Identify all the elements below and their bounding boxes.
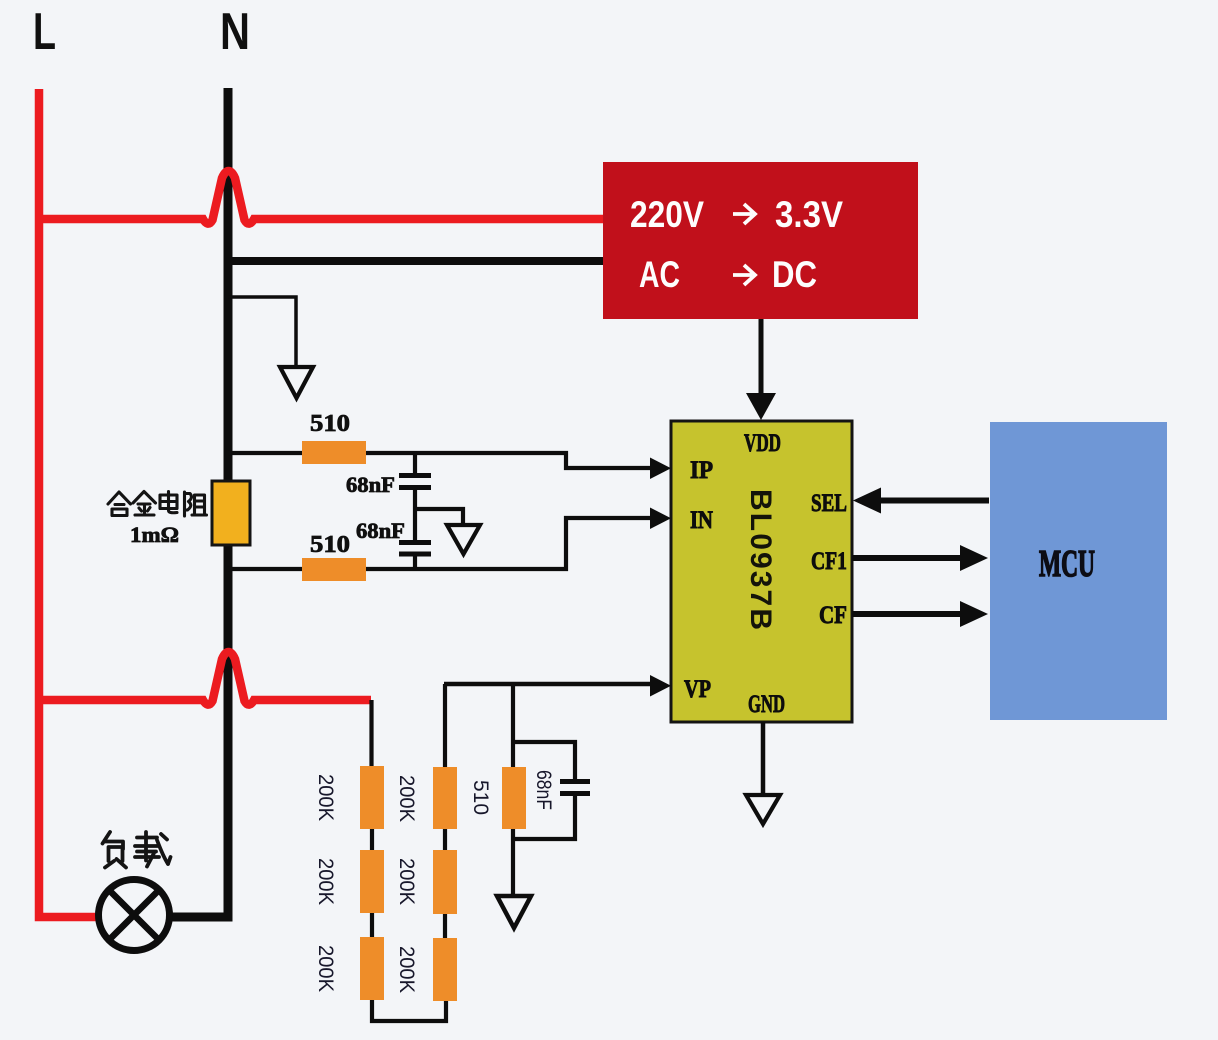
resistor alloy shunt (1mΩ) (212, 481, 250, 545)
svg-text:200K: 200K (395, 858, 418, 905)
wire IP tap (N to IC) (228, 453, 652, 468)
wire 510 VP branch bottom (511, 829, 515, 895)
arrow into pin IP (650, 458, 671, 480)
lamp X cross (109, 890, 159, 940)
svg-text:L: L (33, 3, 56, 61)
label 合金电阻 (hand-drawn glyphs) (108, 492, 207, 517)
arrow into pin VDD (746, 393, 776, 420)
wire cap junction to ground (415, 509, 463, 523)
resistor 200K (col2 top) (433, 767, 457, 829)
power supply AC/DC converter box (603, 162, 918, 319)
svg-text:200K: 200K (395, 775, 418, 822)
arrow AC to DC (733, 265, 755, 285)
resistor 200K (col1 bottom) (360, 937, 384, 1000)
svg-text:68nF: 68nF (532, 770, 555, 810)
ground (N stub) (280, 367, 313, 398)
resistor 200K (col2 bottom) (433, 938, 457, 1001)
svg-text:3.3V: 3.3V (775, 194, 843, 235)
resistor 510 (IN) (302, 558, 366, 581)
ground (GND pin) (746, 795, 780, 824)
svg-text:VDD: VDD (744, 430, 781, 457)
wire CF (IC to MCU) (852, 611, 961, 617)
arrow into pin SEL (853, 488, 881, 514)
svg-text:VP: VP (684, 676, 711, 703)
arrow 220V to 3.3V (733, 204, 755, 224)
wire divider column 1 top (369, 700, 373, 767)
resistor 200K (col1 top) (360, 766, 384, 829)
capacitor 68nF (IP filter) (399, 453, 431, 509)
resistor 200K (col2 mid) (433, 850, 457, 914)
wire VP net (divider to IC) (444, 682, 652, 687)
resistor 510 (VP) (502, 767, 526, 829)
wire N line (black bus, down to load) (171, 88, 228, 917)
svg-text:220V: 220V (630, 194, 704, 235)
wire divider bottom U (372, 1000, 446, 1021)
MCU box (990, 422, 1167, 720)
svg-text:DC: DC (772, 254, 817, 295)
resistor 510 (IP) (302, 441, 366, 464)
svg-text:68nF: 68nF (346, 472, 395, 497)
wire CF1 (IC to MCU) (852, 555, 961, 561)
label 负载 (hand-drawn glyphs) (103, 832, 171, 868)
wire GND pin (761, 722, 766, 794)
svg-text:CF1: CF1 (811, 548, 847, 575)
wire divider column 2 top (443, 684, 447, 768)
IC U1 BL0937B (671, 421, 852, 722)
ground (VP branch) (497, 896, 531, 928)
wire N to AC/DC converter (228, 257, 603, 265)
wire L to AC/DC converter (hop over N) (39, 171, 603, 224)
wire col1 b-c (370, 913, 374, 938)
wire N ground stub (228, 297, 296, 366)
svg-text:510: 510 (310, 411, 350, 437)
arrow into pin VP (650, 675, 671, 697)
svg-text:GND: GND (748, 691, 785, 718)
arrow CF into MCU (960, 601, 988, 627)
wire VDD (converter to IC) (759, 319, 764, 396)
svg-text:510: 510 (469, 780, 492, 815)
wire IN tap (N to IC) (228, 518, 652, 569)
load lamp symbol (99, 880, 170, 951)
wire SEL (MCU to IC) (880, 498, 989, 504)
capacitor 68nF (IN filter) (399, 509, 431, 569)
svg-text:IN: IN (690, 507, 713, 534)
svg-text:BL0937B: BL0937B (744, 489, 777, 630)
resistor 200K (col1 mid) (360, 850, 384, 913)
wire col1 a-b (370, 829, 374, 851)
svg-text:SEL: SEL (811, 490, 847, 517)
svg-text:IP: IP (690, 457, 713, 484)
arrow into pin IN (650, 508, 671, 530)
arrow CF1 into MCU (960, 545, 988, 571)
ground (IP/IN filter) (447, 525, 480, 554)
svg-text:200K: 200K (314, 858, 337, 905)
svg-text:510: 510 (310, 532, 350, 558)
svg-text:200K: 200K (314, 774, 337, 821)
capacitor 68nF (VP, parallel loop) (513, 742, 590, 839)
svg-text:1mΩ: 1mΩ (130, 522, 179, 547)
wire col2 b-c (443, 914, 447, 938)
svg-text:AC: AC (639, 254, 680, 295)
svg-text:200K: 200K (314, 945, 337, 992)
wire 510 VP branch top (511, 684, 515, 768)
wire col2 a-b (443, 829, 447, 851)
wire L to voltage divider (hop over N) (39, 652, 371, 705)
svg-text:N: N (220, 3, 250, 61)
svg-text:68nF: 68nF (356, 518, 405, 543)
svg-text:200K: 200K (395, 946, 418, 993)
svg-text:CF: CF (819, 602, 847, 629)
wire L line (red bus, down to load) (39, 89, 97, 917)
svg-text:MCU: MCU (1039, 543, 1095, 585)
